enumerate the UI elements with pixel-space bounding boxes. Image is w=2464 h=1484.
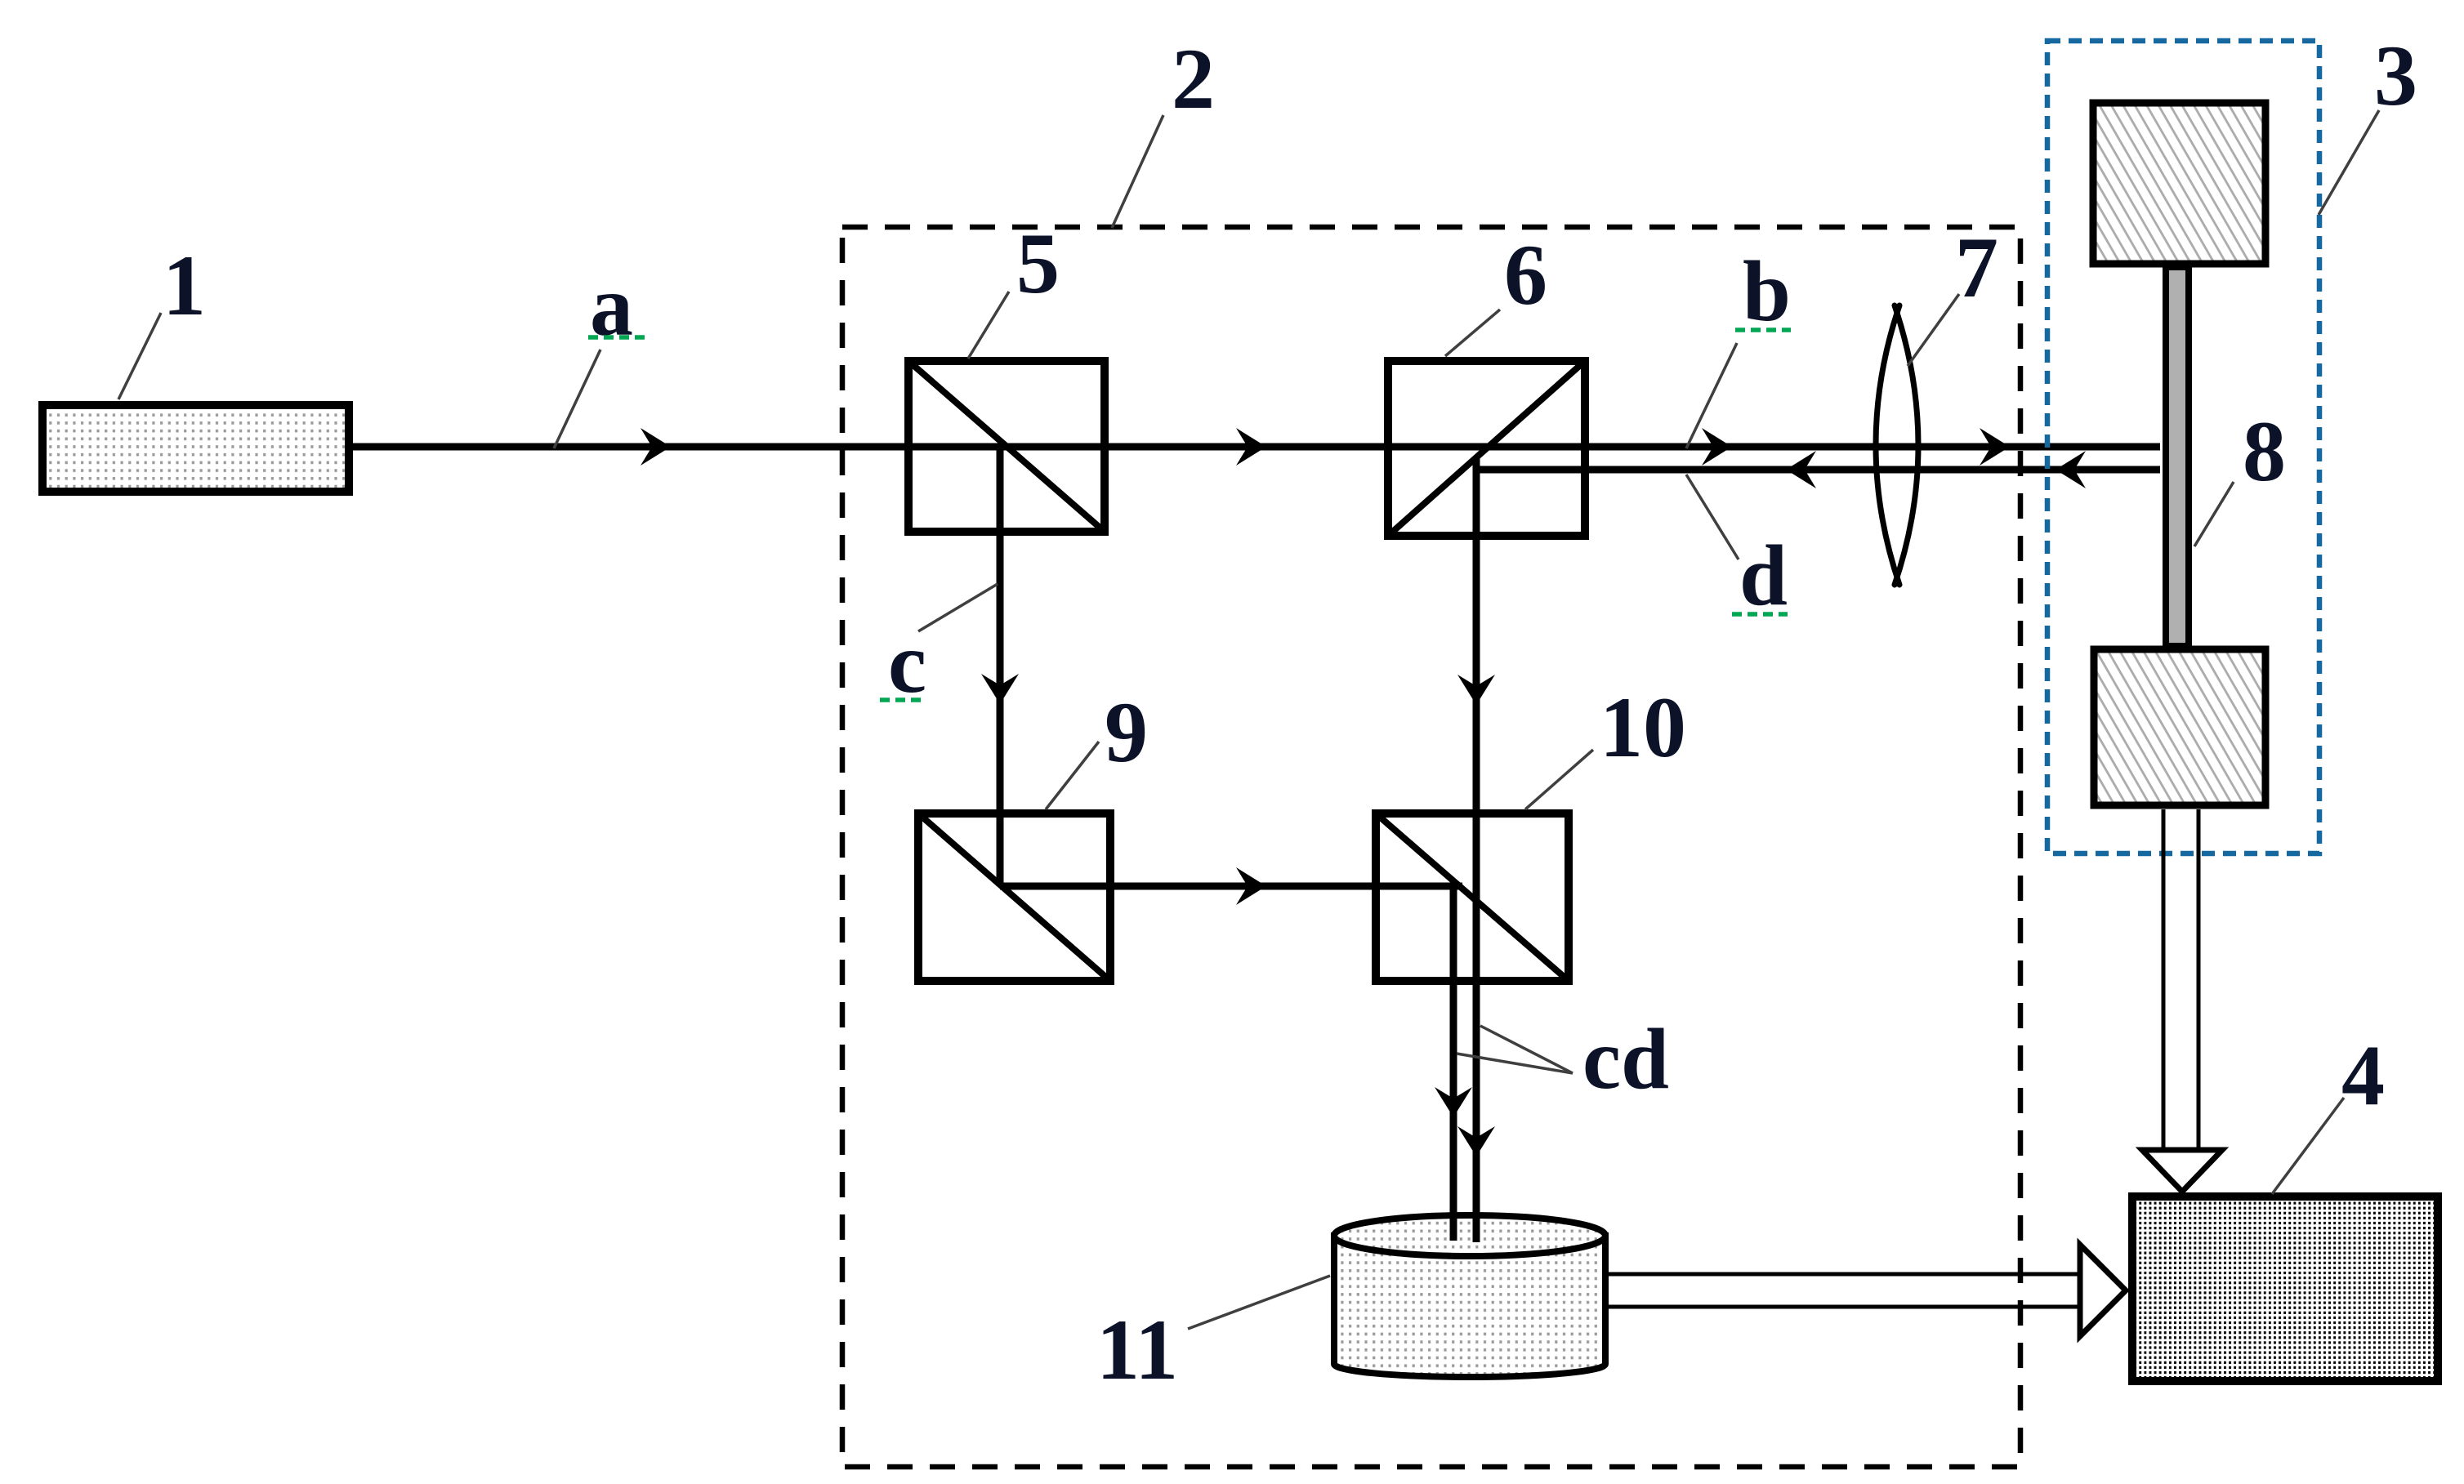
green underline of c: [880, 697, 925, 702]
svg-text:8: 8: [2243, 403, 2286, 499]
leader line for label 6: [1445, 310, 1500, 356]
hatched mirror block top: [2093, 103, 2265, 264]
double-line signal from detector to box 4: [1605, 1274, 2082, 1307]
left arrowhead on return beam near rod: [2056, 451, 2086, 488]
svg-text:d: d: [1739, 528, 1788, 623]
laser source box 1: [42, 405, 349, 492]
green underline of a: [588, 335, 647, 340]
svg-text:cd: cd: [1582, 1011, 1669, 1107]
svg-text:5: 5: [1016, 216, 1060, 311]
down arrowhead on beam d: [1457, 675, 1495, 705]
cd beam tails entering detector: [1450, 1217, 1457, 1241]
leader line for label 8: [2194, 482, 2234, 546]
leader line for label 5: [968, 292, 1009, 359]
return beam d: rod back to splitter 6: [1479, 466, 2160, 474]
leader line for label 11: [1188, 1276, 1330, 1329]
beam splitter cube 9: [918, 813, 1110, 981]
leader line for label 7: [1908, 294, 1959, 366]
main beam a: laser to mirror rod: [349, 443, 2160, 451]
leader line 1 for label cd: [1480, 1026, 1573, 1073]
right arrowhead on beam c between 9 and 10: [1236, 867, 1266, 905]
beam c horizontal from splitter 9 to splitter 10: [1000, 883, 1462, 890]
svg-text:11: 11: [1096, 1302, 1178, 1397]
green underline of b: [1735, 328, 1791, 332]
arrowhead after splitter 6: [1702, 428, 1732, 466]
leader line for label 9: [1046, 742, 1099, 809]
arrowhead between splitters 5 and 6: [1236, 428, 1266, 466]
beam c vertical from splitter 10 down to detector: [1450, 886, 1457, 1239]
svg-text:6: 6: [1504, 227, 1547, 323]
detector cylinder 11: [1334, 1215, 1605, 1377]
left arrowhead on return beam near splitter 6: [1786, 451, 1816, 488]
svg-text:4: 4: [2341, 1027, 2385, 1123]
lens 7: [1876, 305, 1918, 585]
green underline of d: [1732, 612, 1788, 617]
blue dashed target assembly box 3: [2047, 41, 2319, 853]
arrowhead on beam a: [641, 428, 671, 466]
processor box 4: [2132, 1197, 2438, 1381]
double-line signal from block 3 down to box 4: [2163, 809, 2198, 1150]
beam splitter cube 5: [908, 361, 1105, 532]
leader line for label 10: [1525, 750, 1593, 809]
svg-text:10: 10: [1600, 680, 1686, 775]
beam d vertical from splitter 6 down through splitter 10 to detector: [1473, 457, 1480, 1239]
svg-text:b: b: [1743, 243, 1791, 339]
connecting rod 8: [2166, 267, 2189, 646]
open arrowhead into box 4 (horizontal): [2080, 1245, 2126, 1336]
leader line for label a: [554, 350, 600, 448]
svg-text:2: 2: [1172, 31, 1215, 127]
beam c vertical from splitter 5 down to splitter 9: [997, 447, 1004, 886]
open arrowhead into box 4 (vertical): [2142, 1150, 2222, 1192]
svg-text:9: 9: [1105, 684, 1148, 780]
svg-text:3: 3: [2374, 28, 2417, 123]
down arrowhead on cd left line: [1435, 1087, 1472, 1117]
leader line for label 1: [118, 313, 161, 399]
svg-text:1: 1: [163, 238, 206, 333]
leader line for label 2: [1112, 115, 1163, 228]
down arrowhead on beam c: [981, 674, 1019, 704]
beam splitter cube 6: [1388, 361, 1585, 536]
leader line for label b: [1686, 343, 1737, 448]
svg-text:7: 7: [1955, 220, 1998, 315]
leader line 2 for label cd: [1457, 1054, 1573, 1073]
dashed enclosure box 2: [842, 227, 2020, 1467]
leader line for label 3: [2319, 110, 2379, 215]
down arrowhead on cd right line: [1457, 1126, 1495, 1156]
leader line for label c: [918, 584, 998, 631]
arrowhead before target box: [1980, 428, 2010, 466]
leader line for label 4: [2272, 1098, 2344, 1194]
leader line for label d: [1686, 475, 1739, 559]
beam splitter cube 10: [1376, 813, 1569, 981]
hatched mirror block bottom: [2094, 649, 2265, 805]
